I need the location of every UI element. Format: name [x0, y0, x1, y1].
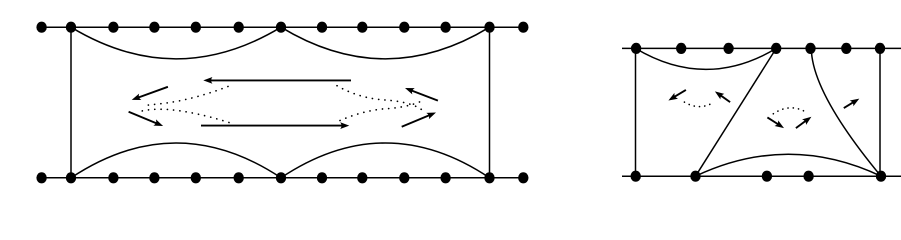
dots on bottom line (right figure) — [631, 171, 887, 182]
dots on top line (right figure) — [631, 43, 885, 54]
dotted curve left-lower to upper-left tip — [141, 109, 230, 122]
long diagonal (right figure) — [696, 48, 777, 176]
bottom line (right figure) — [622, 175, 901, 177]
dots on top line (left figure) — [36, 22, 528, 33]
left vertical (right figure) — [635, 48, 637, 176]
top line (left figure) — [42, 26, 524, 28]
long top arrow pointing left — [210, 79, 351, 81]
bottom arc 1 (left figure) — [71, 143, 281, 178]
single small arrow right (points up-right) — [844, 102, 854, 108]
dotted curve left-upper to lower-left tip — [144, 87, 229, 106]
bottom arc (right figure) — [696, 154, 882, 176]
dotted frown arc pair 2 — [773, 108, 806, 114]
long bottom arrow pointing right — [201, 125, 343, 127]
small arrow pair 2 right (points up-right) — [796, 121, 806, 129]
dots on bottom line (left figure) — [36, 172, 528, 183]
top arc (right figure) — [636, 48, 777, 69]
bottom arc 2 (left figure) — [281, 143, 490, 178]
small arrow pair 1 left (points down-left) — [674, 90, 686, 97]
dotted curve right-lower to upper-right tip — [340, 100, 424, 120]
top line (right figure) — [622, 47, 901, 49]
upper-right corner arrow (points up-left) — [411, 90, 438, 101]
right vertical (left figure) — [489, 27, 491, 178]
lower-right corner arrow (points up-right) — [402, 115, 431, 127]
left vertical (left figure) — [70, 27, 72, 178]
right vertical (right figure) — [879, 48, 881, 176]
small arrow pair 2 left (points down-right) — [767, 117, 778, 124]
curved diagonal from 5th top dot (right figure) — [811, 49, 881, 177]
small arrow pair 1 right (points up-left) — [721, 95, 731, 102]
upper-left corner arrow (points down-left) — [137, 87, 168, 98]
top arc 1 (left figure) — [71, 27, 281, 59]
dotted curve right-upper to lower-right tip — [337, 86, 422, 110]
top arc 2 (left figure) — [281, 27, 490, 59]
bottom line (left figure) — [42, 177, 524, 179]
dotted smile arc pair 1 — [684, 102, 714, 107]
lower-left corner arrow (points down-right) — [129, 112, 158, 124]
